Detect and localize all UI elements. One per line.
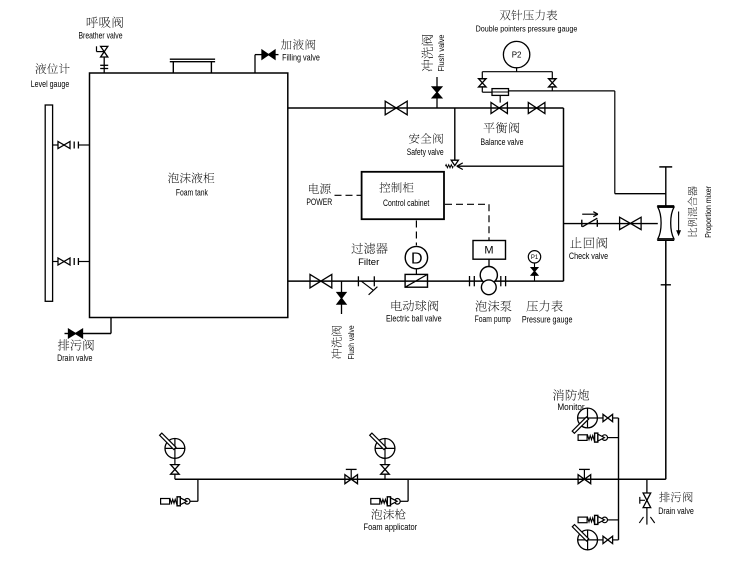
mixer cap [659, 166, 672, 168]
flush valve (bottom) [341, 281, 343, 292]
P1 gauge cock [532, 267, 538, 269]
fire monitor 4 [578, 530, 598, 550]
label: double pointers pressure gauge [500, 10, 511, 20]
suction pipe [288, 280, 564, 282]
control cabinet [362, 172, 444, 219]
label: foam pump [475, 300, 486, 311]
wire to mixer [509, 90, 615, 92]
drain valve (right) [643, 493, 651, 500]
monitor 3 wire [597, 417, 603, 419]
foam applicator 3 [602, 435, 608, 441]
svg-text:Monitor: Monitor [557, 402, 584, 412]
fire monitor 2 [375, 439, 395, 459]
svg-text:Foam applicator: Foam applicator [364, 522, 418, 532]
gauge valve right [549, 79, 557, 83]
monitor 4 wire [598, 539, 604, 541]
svg-text:D: D [411, 250, 423, 267]
pot stem wire [499, 95, 501, 102]
P1 stem wire [534, 263, 536, 268]
discharge riser wire [563, 108, 565, 281]
fire monitor 3 [578, 408, 598, 428]
filling valve wire [254, 55, 256, 73]
flush valve (top) [436, 77, 438, 108]
ball valve actuator [405, 246, 427, 268]
svg-text:Electric ball valve: Electric ball valve [386, 313, 442, 323]
distribution pipe [175, 478, 666, 480]
cabinet to ball valve dashed wire [415, 221, 417, 246]
pump flanges [469, 276, 471, 286]
foam applicator 2 wire [407, 479, 409, 501]
svg-text:P2: P2 [512, 50, 522, 59]
svg-text:Foam tank: Foam tank [176, 187, 208, 197]
valve V2 [528, 103, 536, 114]
svg-text:Proportion mixer: Proportion mixer [703, 186, 713, 238]
right column wire [618, 418, 620, 540]
electric ball valve [405, 274, 427, 287]
valve V1 [385, 101, 396, 115]
svg-text:Filling valve: Filling valve [282, 52, 320, 62]
label: filling valve [281, 39, 292, 49]
actuator wire [415, 269, 417, 274]
check valve [581, 220, 583, 227]
proportion mixer venturi [657, 205, 674, 207]
drain pipe (tank) [110, 318, 112, 334]
svg-text:Check valve: Check valve [569, 251, 608, 261]
label: check valve [570, 237, 581, 248]
label: balance valve [483, 122, 494, 133]
label: drain valve (tank) [58, 339, 69, 350]
safety valve [451, 160, 458, 165]
svg-text:Double pointers pressure gauge: Double pointers pressure gauge [476, 24, 578, 34]
filter Y-strainer [357, 276, 359, 286]
filling valve [262, 50, 269, 59]
foam applicator 1 [184, 499, 190, 505]
foam tank [90, 73, 288, 318]
valve V4 [620, 217, 631, 229]
P2 stem wire [516, 68, 518, 72]
foam applicator 1 wire [197, 479, 199, 501]
label: foam tank [168, 173, 179, 184]
motor M [473, 241, 506, 260]
foam applicator 4 [602, 517, 608, 523]
label: flush valve top [421, 34, 446, 71]
pressure gauge P1 [528, 251, 540, 263]
svg-text:Flush valve: Flush valve [346, 325, 356, 359]
label: safety valve [409, 133, 419, 143]
safety valve outlet wire [457, 165, 564, 167]
monitor 1 valve [174, 458, 176, 464]
svg-text:Flush valve: Flush valve [436, 34, 446, 71]
foam applicator 4 wire [606, 519, 619, 521]
label: drain valve (right) [659, 492, 670, 502]
svg-text:POWER: POWER [306, 197, 332, 207]
svg-text:Foam pump: Foam pump [475, 314, 511, 324]
label: level gauge [35, 63, 46, 74]
foam applicator 2 [395, 499, 401, 505]
svg-text:Level gauge: Level gauge [31, 79, 70, 89]
svg-text:Control cabinet: Control cabinet [383, 198, 430, 208]
foam pump [480, 267, 497, 284]
monitor 3 valve [603, 414, 608, 421]
top pipe [288, 107, 564, 109]
svg-text:M: M [484, 245, 493, 257]
foam applicator 3 wire [606, 437, 619, 439]
cabinet to motor dashed wire [445, 203, 489, 205]
gauge piping wire [481, 87, 483, 93]
level gauge [45, 105, 52, 301]
manhole [172, 62, 174, 74]
svg-text:P1: P1 [531, 255, 539, 261]
label: flush valve bottom [331, 325, 356, 359]
svg-text:Filter: Filter [358, 257, 379, 267]
monitor 4 valve [603, 536, 608, 543]
svg-text:Drain valve: Drain valve [658, 506, 694, 516]
label: pressure gauge [526, 301, 537, 312]
level gauge valve top [53, 144, 58, 146]
label: breather valve [87, 17, 98, 28]
svg-text:Breather valve: Breather valve [79, 30, 123, 40]
breather valve B1 [103, 57, 105, 73]
label: power [309, 183, 319, 194]
monitor 2 valve [384, 458, 386, 464]
label: control cabinet [379, 182, 390, 193]
gauge valve left [479, 79, 487, 83]
line valve (right) [578, 475, 584, 484]
drain valve D1 [69, 329, 76, 338]
motor-pump wire [488, 259, 490, 267]
label: monitor [553, 389, 564, 400]
P2 header wire [482, 71, 552, 73]
power dashed wire [335, 194, 362, 196]
label: proportion mixer [688, 186, 714, 238]
mixer flow arrow [678, 212, 680, 233]
drain branch wire [646, 479, 648, 493]
fire monitor 1 [165, 439, 185, 459]
level gauge valve bottom [53, 261, 58, 263]
svg-text:Safety valve: Safety valve [407, 147, 444, 157]
check valve wire [564, 223, 658, 225]
valve V3 [310, 274, 321, 288]
mixer outlet wire [665, 240, 667, 479]
condensate pot [492, 89, 509, 96]
svg-text:Balance valve: Balance valve [481, 137, 524, 147]
label: electric ball valve [392, 300, 402, 311]
label: filter [352, 243, 363, 254]
safety valve branch wire [454, 108, 456, 160]
balance valve [491, 103, 499, 114]
svg-text:Drain valve: Drain valve [57, 353, 92, 363]
label: foam applicator [371, 509, 382, 520]
svg-text:Pressure gauge: Pressure gauge [522, 314, 573, 324]
pressure gauge P2 [503, 41, 529, 67]
P1 wire [534, 275, 536, 281]
line valve (mid) [345, 475, 351, 484]
